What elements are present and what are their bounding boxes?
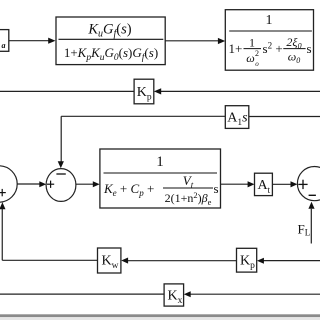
svg-text:KuGf(s): KuGf(s) (87, 22, 131, 40)
svg-text:1: 1 (266, 13, 273, 28)
svg-text:2: 2 (255, 49, 259, 58)
svg-text:s2 +: s2 + (263, 41, 283, 57)
svg-text:1+: 1+ (229, 41, 243, 56)
svg-text:1: 1 (249, 36, 255, 50)
svg-text:Ke + Cp +: Ke + Cp + (103, 181, 154, 198)
svg-text:s: s (307, 41, 312, 56)
svg-text:a: a (2, 41, 6, 50)
svg-text:o: o (255, 60, 259, 68)
svg-text:FL: FL (298, 222, 311, 238)
svg-text:2(1+n2)βe: 2(1+n2)βe (165, 190, 212, 207)
svg-text:s: s (214, 181, 219, 196)
svg-text:ω: ω (246, 51, 254, 65)
svg-text:1: 1 (156, 154, 164, 170)
